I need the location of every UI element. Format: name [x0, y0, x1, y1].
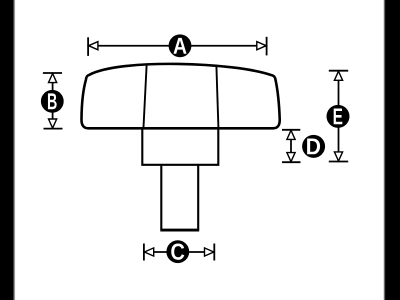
knob stem bottom edge [160, 229, 199, 232]
dimension E arrowhead down [334, 152, 342, 161]
dimension D extension tick bottom [282, 161, 301, 163]
dimension B extension tick bottom [44, 128, 63, 130]
dimension D arrowhead down [287, 153, 295, 162]
label letter B [48, 93, 57, 109]
right black border bar [385, 0, 400, 300]
dimension B arrowhead up [49, 74, 57, 83]
knob wing outline [81, 64, 279, 128]
dimension A line [88, 45, 267, 47]
label letter D [307, 138, 320, 154]
label circle D [302, 135, 325, 158]
knob hub left divider line [144, 66, 147, 128]
label circle E [327, 105, 350, 128]
label letter A [173, 38, 186, 54]
dimension A arrowhead left [89, 42, 98, 50]
label letter C [171, 244, 184, 260]
dimension D line [290, 130, 292, 162]
dimension A extension tick right [266, 37, 268, 56]
dimension C extension tick left [143, 244, 145, 261]
dimension B extension tick top [43, 72, 62, 74]
dimension C arrowhead right [205, 248, 214, 256]
dimension D extension tick top [282, 129, 300, 131]
knob boss block below wing [142, 128, 218, 164]
dimension D arrowhead up [287, 130, 295, 139]
dimension C extension tick right [213, 244, 215, 261]
label letter E [334, 108, 343, 124]
label circle B [41, 90, 64, 113]
dimension C arrowhead left [144, 248, 153, 256]
dimension B line [52, 73, 54, 129]
label circle A [169, 34, 192, 57]
dimension A arrowhead right [257, 42, 266, 50]
dimension E extension tick bottom [329, 161, 348, 163]
left black border bar [0, 0, 13, 300]
dimension E extension tick top [329, 70, 348, 72]
knob stem [161, 165, 198, 230]
label circle C [166, 240, 189, 263]
dimension C line [144, 251, 214, 253]
knob hub right divider line [216, 66, 218, 127]
dimension E arrowhead up [334, 71, 342, 80]
dimension A extension tick left [87, 37, 89, 56]
dimension B arrowhead down [49, 119, 57, 128]
dimension E line [338, 71, 340, 162]
